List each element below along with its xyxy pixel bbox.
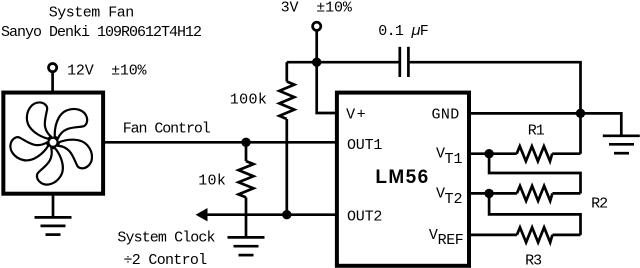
resistor 100k: [279, 82, 294, 120]
svg-text:System Clock: System Clock: [117, 230, 215, 247]
svg-text:3V ±10%: 3V ±10%: [281, 0, 353, 17]
svg-text:T1: T1: [445, 151, 463, 168]
fan box: [3, 93, 103, 194]
resistor R2: [517, 186, 553, 201]
node junction 3V: [312, 58, 321, 67]
node junction GND / rail: [576, 109, 585, 118]
wire VREF pin: [469, 234, 517, 237]
wire R1 right lead: [552, 152, 580, 155]
wire VT2 pin: [469, 192, 517, 195]
pin label VREF: [429, 227, 464, 249]
svg-text:R3: R3: [525, 252, 542, 268]
node junction VT1: [484, 149, 493, 158]
capacitor C plates: [400, 47, 409, 77]
svg-text:÷2 Control: ÷2 Control: [123, 252, 207, 268]
svg-text:OUT1: OUT1: [347, 137, 382, 154]
svg-text:0.1 µF: 0.1 µF: [378, 23, 428, 40]
wire fan ground stem: [52, 194, 55, 218]
wire VT1 to R2 connector: [489, 154, 580, 194]
svg-text:Fan Control: Fan Control: [123, 121, 211, 138]
svg-text:GND: GND: [432, 106, 460, 123]
svg-text:T2: T2: [445, 191, 463, 208]
svg-text:V: V: [429, 227, 438, 244]
terminal 12V: [49, 64, 57, 72]
wire GND pin to ground: [469, 113, 621, 135]
svg-text:12V ±10%: 12V ±10%: [67, 62, 147, 79]
wire 100k top lead: [285, 62, 288, 81]
fan hub: [48, 138, 57, 147]
wire VT2 to R3 connector: [489, 193, 580, 235]
wire 3V stem: [315, 30, 318, 62]
wire OUT2: [205, 213, 339, 216]
arrow system clock: [196, 208, 208, 221]
wire 10k bottom lead to ground: [245, 197, 248, 237]
ground under fan: [35, 217, 72, 234]
svg-text:REF: REF: [438, 232, 464, 249]
terminal 3V: [313, 22, 321, 30]
svg-text:LM56: LM56: [375, 167, 429, 188]
svg-text:System Fan: System Fan: [49, 5, 134, 22]
wire R3 right lead: [552, 234, 580, 237]
resistor R3: [517, 227, 553, 242]
wire V+ drop: [317, 62, 339, 113]
fan blades: [6, 100, 95, 190]
svg-text:100k: 100k: [230, 92, 267, 109]
svg-text:V+: V+: [346, 106, 367, 123]
svg-text:10k: 10k: [198, 173, 226, 190]
wire top rail right of cap: [408, 62, 580, 154]
resistor R1: [517, 146, 553, 161]
node junction VT2: [484, 189, 493, 198]
svg-text:Sanyo Denki 109R0612T4H12: Sanyo Denki 109R0612T4H12: [1, 24, 201, 41]
wire top rail left of cap: [287, 61, 399, 64]
wire 10k top lead: [245, 142, 248, 161]
op-amp-box IC U1 LM56: [337, 93, 469, 266]
ground under 10k: [228, 237, 265, 255]
wire fan control OUT1: [105, 141, 339, 144]
node junction OUT2 / 100k: [282, 210, 291, 219]
svg-text:OUT2: OUT2: [347, 209, 382, 226]
pin label VT1: [436, 146, 463, 168]
node junction fan control / 10k: [241, 138, 250, 147]
resistor 10k: [239, 161, 254, 197]
wire R2 right lead: [552, 192, 580, 195]
wire VT1 pin: [469, 152, 517, 155]
pin label VT2: [436, 185, 463, 207]
wire 100k bottom lead to OUT2: [285, 119, 288, 215]
wire 12V stem: [51, 72, 54, 93]
ground right: [603, 136, 640, 153]
svg-text:R1: R1: [528, 123, 545, 140]
svg-text:R2: R2: [591, 196, 607, 213]
